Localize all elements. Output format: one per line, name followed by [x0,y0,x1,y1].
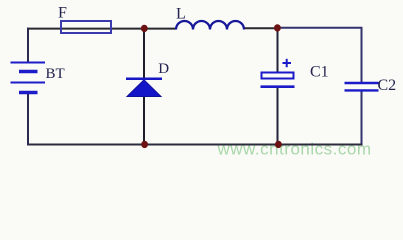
svg-text:L: L [176,6,186,23]
svg-text:BT: BT [46,66,65,82]
wire left vertical (battery top lead) [27,28,29,63]
wire top rail right (C1 node to top-right corner) [277,28,362,83]
wire right vertical below C2 [361,91,363,146]
diode D [126,79,162,97]
inductor L [176,21,244,30]
svg-text:www.cntronics.com: www.cntronics.com [217,140,372,159]
wire C1 branch bottom [277,87,279,145]
node junction dot (top, C1) [274,24,281,31]
svg-text:D: D [158,61,169,77]
capacitor C2 [345,83,379,90]
svg-text:C1: C1 [310,64,329,81]
wire diode branch top [143,29,145,79]
battery BT [11,63,46,93]
node junction dot (bottom, diode) [141,141,148,148]
svg-text:C2: C2 [378,77,397,94]
capacitor C1 (electrolytic, polarized) [261,59,295,87]
node junction dot (bottom, C1) [275,141,282,148]
wire C1 branch top [277,28,279,73]
fuse F [61,21,111,33]
wire top rail mid (inductor to C1 node) [244,27,278,29]
wire top rail left (battery to inductor, through fuse) [27,28,176,30]
node junction dot (top, diode) [141,25,148,32]
svg-text:F: F [58,5,67,22]
wire left vertical (battery bottom lead) [27,93,29,146]
wire diode branch bottom [143,96,145,145]
wire bottom rail [27,144,363,146]
